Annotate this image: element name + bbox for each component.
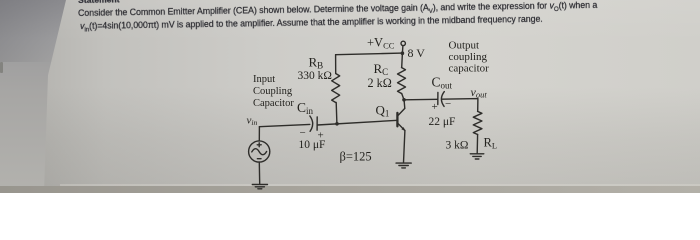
svg-text:RB: RB (309, 55, 324, 71)
label 2 kOhm (368, 76, 392, 90)
label Cout plus (432, 101, 438, 113)
svg-text:3 kΩ: 3 kΩ (446, 140, 469, 152)
junction collector node (402, 98, 406, 102)
svg-text:Coupling: Coupling (253, 86, 293, 97)
wire top rail (336, 53, 403, 55)
svg-text:Output: Output (449, 40, 480, 52)
svg-text:RC: RC (374, 61, 389, 77)
label RB (309, 55, 324, 71)
ground RL (470, 154, 484, 159)
capacitor Cin (310, 116, 317, 131)
label RL (484, 136, 498, 151)
label Input Coupling Capacitor (253, 74, 294, 109)
junction Vcc node (401, 51, 405, 55)
wire Vcc lead (401, 46, 404, 53)
svg-text:vin: vin (247, 114, 258, 127)
wire base wire right (317, 120, 397, 125)
label 3 kOhm (446, 140, 469, 152)
bottom dark strip (60, 184, 700, 186)
label Output coupling capacitor (449, 40, 490, 75)
svg-text:coupling: coupling (449, 51, 488, 63)
svg-text:Input: Input (253, 74, 275, 85)
label beta=125 (340, 150, 372, 164)
label +Vcc (367, 36, 395, 51)
svg-text:capacitor: capacitor (449, 63, 490, 75)
problem text line 1 (78, 0, 597, 21)
label 10 uF (299, 139, 326, 151)
wire source bottom lead (258, 162, 260, 184)
svg-text:22 μF: 22 μF (429, 116, 456, 128)
node +Vcc terminal (401, 41, 405, 45)
resistor RC (398, 53, 406, 100)
resistor RB (332, 55, 340, 124)
label Cout (432, 75, 453, 91)
small mark on left edge (0, 62, 3, 73)
label Vout (471, 85, 488, 100)
source Vin (249, 141, 270, 162)
svg-text:10 μF: 10 μF (299, 139, 326, 151)
svg-text:Q1: Q1 (376, 102, 390, 118)
label Vin (247, 114, 258, 127)
label Cin (297, 100, 314, 116)
wire base wire left (259, 124, 309, 126)
wire emitter lead (404, 131, 405, 163)
svg-text:+VCC: +VCC (367, 36, 395, 51)
svg-text:+: + (432, 101, 438, 113)
wire source top lead (258, 127, 260, 141)
svg-text:RL: RL (484, 136, 498, 151)
svg-text:−: − (300, 127, 306, 139)
wire collector to Cout (404, 98, 438, 101)
svg-text:8 V: 8 V (408, 46, 426, 60)
label 330 kOhm (298, 70, 332, 82)
ground emitter (396, 163, 411, 168)
paper left edge strip (0, 0, 70, 193)
svg-text:330 kΩ: 330 kΩ (298, 70, 332, 82)
label 8 V (408, 46, 426, 60)
svg-text:Capacitor: Capacitor (253, 98, 294, 109)
svg-text:2 kΩ: 2 kΩ (368, 76, 392, 90)
problem text line 2 (80, 14, 543, 34)
label Q1 (376, 102, 390, 118)
label 22 uF (429, 116, 456, 128)
svg-text:Cout: Cout (432, 75, 453, 91)
top-left shading (0, 0, 95, 62)
label Cin plus (318, 130, 324, 142)
resistor RL (473, 111, 482, 153)
wire Cout to output corner (442, 99, 478, 112)
transistor Q1 (397, 100, 405, 131)
capacitor Cout (438, 92, 445, 107)
svg-text:β=125: β=125 (340, 150, 372, 164)
svg-text:vout: vout (471, 85, 488, 100)
label RC (374, 61, 389, 77)
cropped heading text (78, 0, 120, 5)
ground source (252, 185, 267, 189)
svg-text:Cin: Cin (297, 100, 314, 116)
junction base node (335, 122, 339, 126)
label Cout minus (445, 98, 451, 110)
label Cin minus (300, 127, 306, 139)
